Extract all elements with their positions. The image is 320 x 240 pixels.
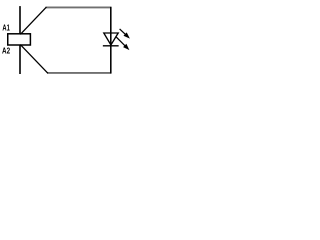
wire A1 terminal stub	[19, 6, 21, 34]
wire bottom rail	[47, 72, 110, 74]
wire top rail	[46, 6, 111, 8]
svg-text:A1: A1	[2, 25, 10, 33]
wire bottom diagonal	[20, 45, 48, 74]
LED emission arrow upper shaft	[120, 29, 126, 35]
svg-text:A2: A2	[2, 47, 10, 56]
wire right vertical	[110, 7, 112, 74]
LED emission arrow upper head	[123, 32, 129, 38]
wire A2 terminal stub	[19, 45, 21, 74]
coil A1-A2 rectangle	[8, 34, 31, 45]
wire top diagonal	[20, 7, 46, 34]
LED D1 triangle	[104, 33, 118, 45]
LED emission arrow lower head	[123, 44, 129, 50]
LED emission arrow lower shaft	[116, 37, 125, 46]
LED cathode bar	[103, 45, 119, 47]
